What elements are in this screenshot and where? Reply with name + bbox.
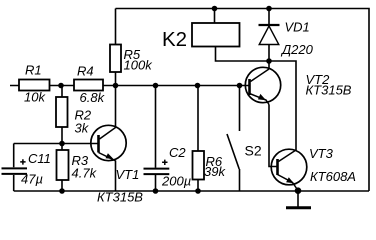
svg-text:C11: C11 xyxy=(28,151,51,166)
svg-text:39k: 39k xyxy=(204,164,226,179)
svg-text:C2: C2 xyxy=(169,145,186,160)
svg-text:R1: R1 xyxy=(25,63,42,78)
svg-text:S2: S2 xyxy=(245,143,262,159)
svg-text:6.8k: 6.8k xyxy=(80,90,106,105)
svg-text:КТ315В: КТ315В xyxy=(306,83,352,98)
svg-text:КТ315В: КТ315В xyxy=(97,190,143,205)
svg-text:200µ: 200µ xyxy=(161,174,191,189)
svg-text:R4: R4 xyxy=(77,64,94,79)
svg-text:VD1: VD1 xyxy=(285,20,310,35)
svg-text:3k: 3k xyxy=(75,121,90,136)
svg-text:K2: K2 xyxy=(162,28,187,51)
svg-text:Д220: Д220 xyxy=(280,42,314,57)
svg-text:VT3: VT3 xyxy=(309,146,334,161)
svg-text:КТ608А: КТ608А xyxy=(310,169,356,184)
svg-text:100k: 100k xyxy=(124,58,154,73)
svg-text:VT1: VT1 xyxy=(116,167,140,182)
svg-text:10k: 10k xyxy=(24,90,46,105)
svg-text:4.7k: 4.7k xyxy=(72,166,98,181)
svg-text:47µ: 47µ xyxy=(21,172,43,187)
